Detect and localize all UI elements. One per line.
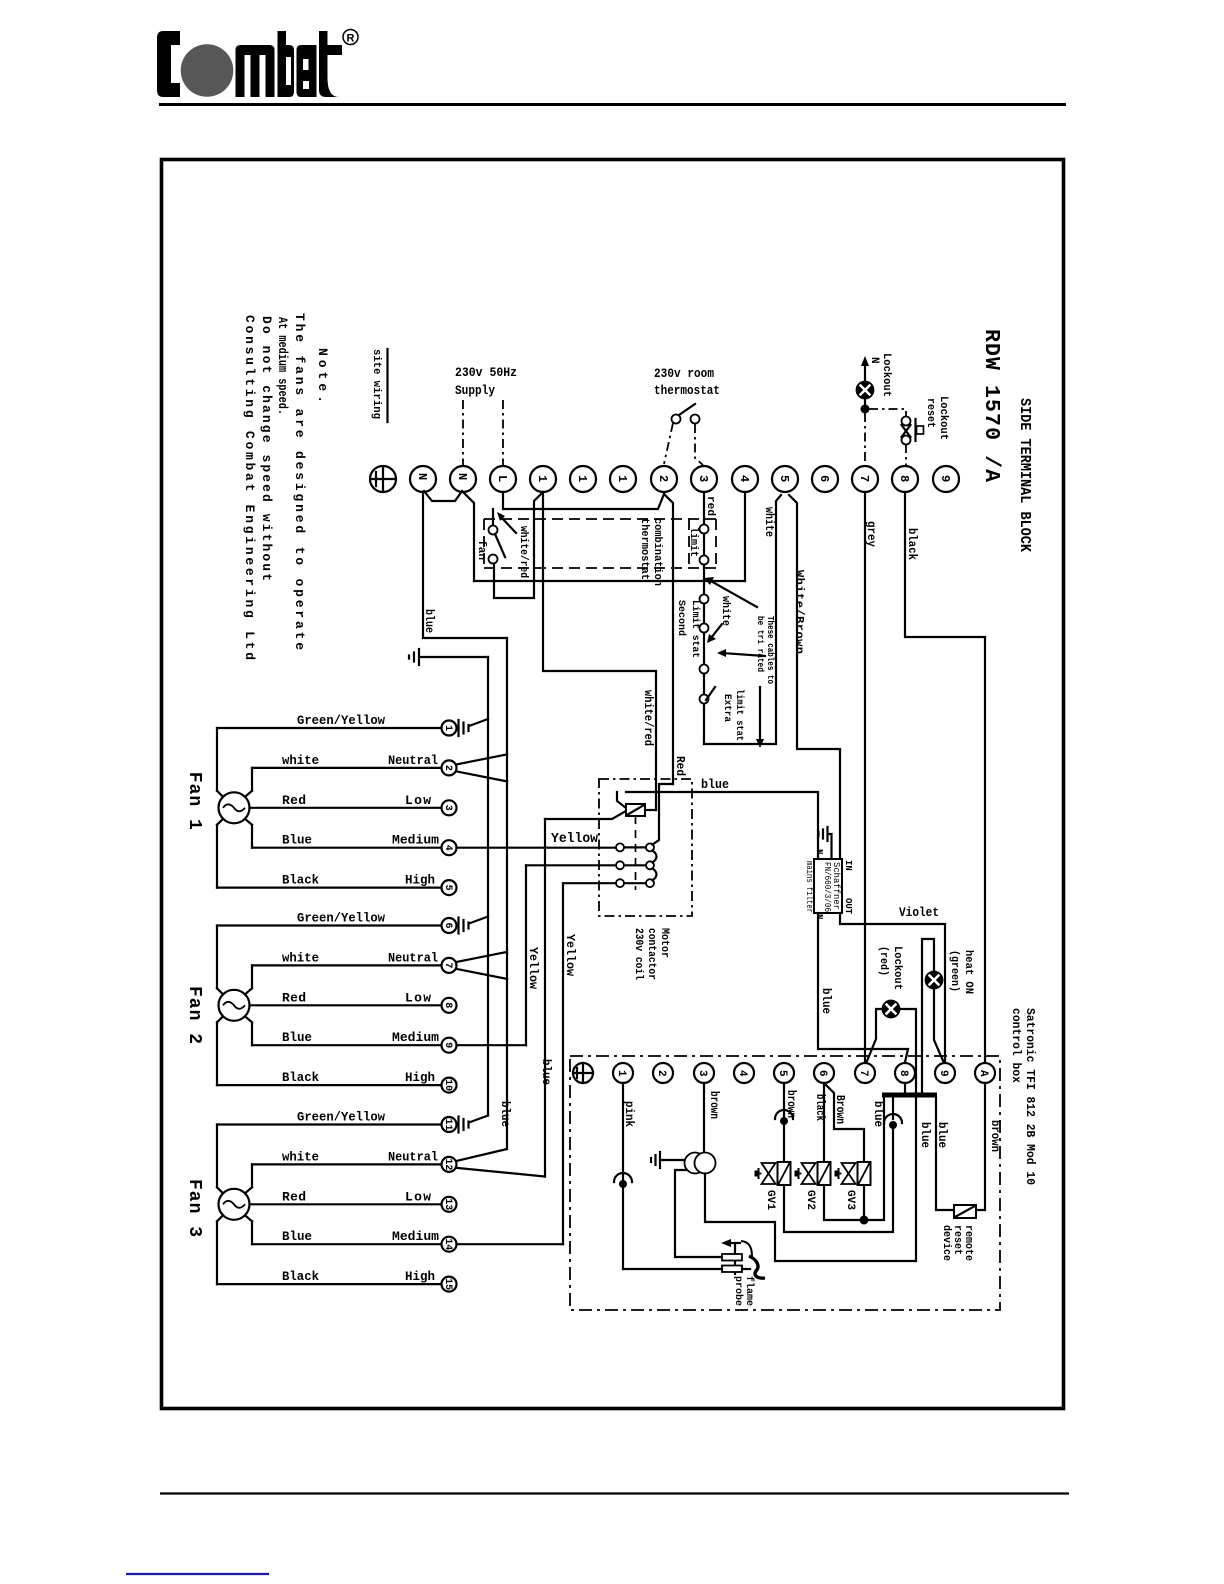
box terminal earth [573,1063,593,1083]
wire blue bus corner into coil [545,811,626,819]
LOGO [157,30,358,98]
svg-text:N: N [415,473,429,480]
terminal 5 [772,466,798,492]
contactor coil stub from blue [617,792,626,808]
svg-text:Lockout: Lockout [937,396,949,440]
wire spark generator earth stem [660,1159,685,1161]
svg-text:Red: Red [673,756,687,776]
wire horizontal stat line y581 [474,580,745,582]
room thermostat switch blade [679,404,695,415]
svg-text:Medium: Medium [392,1229,439,1244]
svg-text:These cables to: These cables to [765,616,775,684]
wire N2 down to stat line [463,492,474,581]
fan motor M2 [219,990,250,1021]
wire lockout red lamp left [867,1009,883,1061]
svg-text:be tri rated: be tri rated [755,616,765,672]
neutral bus thick bar [882,1093,937,1098]
svg-text:230v coil: 230v coil [632,928,644,980]
wire GV2 bottom rail [824,1097,884,1220]
svg-text:2: 2 [655,1070,667,1077]
lockout reset switch contacts [902,417,911,426]
wire N1-N2 link [424,491,462,501]
wire lower bar to pink [623,1268,722,1270]
svg-text:RDW 1570 /A: RDW 1570 /A [979,329,1003,482]
svg-text:High: High [405,873,435,888]
gas valve GV2 [795,1162,831,1210]
wire heat ON lamp to terminal 9 [934,989,944,1064]
svg-text:R: R [347,33,355,45]
terminal 8 (fan block) [442,998,457,1013]
earth symbol at spark generator [659,1152,661,1168]
supply dash-dot lead to N [462,400,464,465]
svg-text:pink: pink [622,1101,636,1127]
flame probe upper bar [722,1254,742,1261]
wire fan 2 green/yellow [217,924,442,926]
svg-text:device: device [940,1225,952,1261]
box terminal 1 [613,1063,633,1083]
Combat logo letter m [236,45,275,97]
terminal 3 [691,466,717,492]
svg-text:site wiring: site wiring [370,349,382,419]
arrow to extra limit stat [722,653,765,656]
flame probe lower bar [722,1266,742,1273]
wire terminal 5 white/brown drop [789,495,840,859]
svg-text:white: white [762,507,776,537]
wire earth tap fan 3 [469,1116,488,1123]
svg-text:blue: blue [918,1122,932,1148]
connector on GV1 return [884,1114,902,1123]
wire fan 3 green/yellow riser [216,1125,218,1188]
wire lower bar right stub [742,1268,750,1270]
svg-text:white: white [282,1149,319,1164]
terminal 9 (fan block) [442,1038,457,1053]
wire yellow bus fan3 [562,883,564,1244]
remote reset device [954,1205,976,1218]
lockout lamp (red) [883,1001,900,1018]
Satronic control box dashed outline [570,1056,1000,1310]
terminal 6 [812,466,838,492]
box terminal 6 [814,1063,834,1083]
svg-text:7: 7 [857,475,871,482]
svg-text:7: 7 [857,1070,869,1077]
svg-text:black: black [905,528,919,560]
svg-text:13: 13 [442,1198,453,1210]
terminal 3 (fan block) [442,800,457,815]
lockout reset switch blade cross [902,425,911,437]
svg-text:Green/Yellow: Green/Yellow [297,713,385,728]
wire fan 3 red/low [250,1203,442,1205]
svg-text:FN/660/3/06: FN/660/3/06 [822,862,832,912]
lockout N arrow [864,364,866,381]
svg-text:Yellow: Yellow [551,831,599,847]
box terminal 2 [653,1063,673,1083]
svg-text:blue: blue [701,777,729,792]
svg-text:Neutral: Neutral [388,753,438,768]
svg-text:N: N [868,357,880,364]
svg-text:4: 4 [737,475,751,482]
svg-text:7: 7 [442,962,453,968]
svg-text:10: 10 [442,1079,453,1091]
terminal 1c [610,466,636,492]
junction dot GV3 rail [860,1216,869,1225]
svg-text:limit stat: limit stat [733,689,745,741]
terminal L [490,466,516,492]
svg-text:Black: Black [282,1070,319,1085]
dash-dot lead thermostat to terminal 2 [664,423,673,464]
wire blue coil to filter [626,792,818,857]
junction dot under lamp [864,398,866,408]
svg-text:Do not change speed without: Do not change speed without [259,316,274,581]
wire blue neutral bus vertical [506,638,508,1149]
wire neutral taps fan 3 [457,1149,508,1161]
terminal 5 (fan block) [442,880,457,895]
svg-text:8: 8 [897,475,911,482]
wire GV1 bottom [784,1129,893,1232]
svg-text:Red: Red [282,793,306,808]
svg-text:11: 11 [442,1119,453,1131]
terminal 4 [732,466,758,492]
wire fan 1 white/neutral [252,767,442,769]
svg-text:IN: IN [843,860,853,871]
svg-text:brown: brown [707,1091,721,1119]
svg-text:Lockout: Lockout [891,946,903,990]
wire fan 3 white riser [251,1164,253,1187]
svg-text:Low: Low [405,1189,431,1204]
svg-text:5: 5 [442,885,453,891]
terminal 2 (fan block) [442,760,457,775]
wire fan 3 black/high [217,1283,442,1285]
svg-text:Neutral: Neutral [388,1149,438,1164]
svg-text:reset: reset [924,398,936,428]
flame probe arrow [721,1239,731,1247]
svg-text:white: white [719,596,731,626]
wire fan 2 blue riser [251,1022,253,1045]
terminal N (top row, first) [410,466,436,492]
wire filter earth stem [828,834,832,857]
svg-text:blue: blue [498,1101,512,1127]
fan 2 motor stubs [217,988,223,994]
terminal 12 (fan block) [442,1157,457,1172]
svg-text:Blue: Blue [282,1030,312,1045]
fan 1 motor stubs [217,791,223,797]
terminal N (top row, second) [450,466,476,492]
extra limit stat contacts [700,665,709,674]
svg-text:red: red [704,496,716,516]
wire earth tap fan 1 [469,719,488,726]
svg-text:2: 2 [656,475,670,482]
fan switch contacts [489,526,498,535]
svg-text:4: 4 [736,1070,748,1077]
box terminal 7 [855,1063,875,1083]
site wiring divider line [386,349,388,422]
terminal 14 (fan block) [442,1237,457,1252]
wire terminal 1a diagonal to fan switch return [494,492,543,598]
svg-text:mains filter: mains filter [804,861,814,913]
svg-text:Fan 2: Fan 2 [184,986,204,1044]
terminal 1 (fan block) [442,721,457,736]
svg-text:OUT: OUT [843,898,853,915]
wire fan 1 green/yellow [217,727,442,729]
svg-text:Second: Second [675,600,687,636]
contactor linkage dashed [635,816,637,890]
svg-text:N: N [814,849,824,854]
svg-text:5: 5 [777,475,791,482]
svg-text:Extra: Extra [721,694,732,722]
registered trademark symbol [343,30,358,45]
wire red feed to pole 1 [653,784,674,845]
wire 6 to GV3 brown [826,1085,864,1162]
svg-text:1: 1 [615,475,629,482]
wire connector to bus bar [892,1097,894,1119]
wire terminal 1a white/red drop [543,492,656,810]
svg-text:combination: combination [651,518,663,586]
motor contactor dash-dot box [599,779,692,916]
wire fan 2 blue/medium [252,1044,442,1046]
second limit stat blade arrow [711,624,722,638]
lockout reset pushbutton [914,419,916,441]
svg-text:3: 3 [696,475,710,482]
wire terminal 8 to bus bar [904,1083,906,1092]
Combat logo letter b [278,31,295,97]
supply dash-dot lead to L [502,400,504,465]
wire blue neutral feed from N1 [423,492,507,638]
svg-text:White/Brown: White/Brown [792,570,806,654]
svg-text:1: 1 [575,475,589,482]
dash-dot reset to terminal 8 [905,444,907,465]
earth symbol fan 1 [457,720,459,736]
wire fan 1 medium to contactor [457,847,617,849]
box terminal 5 [774,1063,794,1083]
wire L down to fan switch line [503,492,664,509]
svg-text:white: white [282,950,319,965]
terminal 2 [651,466,677,492]
wire spark generator right to bus [705,1174,916,1262]
svg-text:probe: probe [732,1276,744,1306]
spark generator [685,1153,706,1174]
svg-text:limit: limit [687,527,699,557]
svg-text:1: 1 [535,475,549,482]
terminal 10 (fan block) [442,1078,457,1093]
wire bar to remote reset device [936,1098,954,1211]
wire fan 3 blue riser [251,1221,253,1244]
wire terminal 3 to spark generator [703,1083,705,1153]
svg-text:GV1: GV1 [764,1190,776,1210]
svg-text:blue: blue [819,988,833,1014]
dash-dot lamp to terminal 7 [864,413,866,465]
wire neutral taps fan 1 [457,754,508,764]
svg-text:Fan 3: Fan 3 [184,1179,204,1237]
terminal 1b [570,466,596,492]
Combat logo letter C [157,31,180,97]
svg-text:Yellow: Yellow [526,947,540,990]
svg-text:Black: Black [282,1269,319,1284]
svg-text:Low: Low [405,990,431,1005]
wire earth bus vertical [487,657,489,1116]
svg-text:blue: blue [871,1101,885,1127]
svg-text:heat ON: heat ON [962,950,974,994]
wire device to terminal A [976,1083,985,1210]
svg-text:1: 1 [615,1070,627,1077]
box terminal 4 [734,1063,754,1083]
svg-text:Motor: Motor [658,928,670,958]
svg-text:Supply: Supply [455,383,495,398]
contactor pole 1 bar [617,846,651,848]
contactor pole 2 bar [526,864,650,866]
svg-text:Blue: Blue [282,1229,312,1244]
contactor coil [626,804,645,816]
wire fan 1 black/high [217,886,442,888]
svg-text:Limit stat: Limit stat [689,600,701,658]
wire blue from filter bottom [818,913,908,1062]
wire fan 1 white riser [251,768,253,791]
svg-text:Red: Red [282,990,306,1005]
earth symbol at filter [826,827,828,841]
svg-text:1: 1 [442,725,453,731]
flame probe stem [734,1243,736,1274]
svg-text:Medium: Medium [392,833,439,848]
drawing frame border [162,160,1064,1409]
svg-text:230v room: 230v room [654,366,714,381]
svg-text:thermostat: thermostat [654,383,720,398]
terminal 6 (fan block) [442,918,457,933]
svg-text:5: 5 [776,1070,788,1077]
box terminal A [975,1063,995,1083]
fan 3 motor stubs [217,1187,223,1193]
svg-text:GV3: GV3 [844,1190,856,1210]
contactor pole 1 contacts [616,843,624,851]
svg-text:white: white [282,753,319,768]
lockout lamp (top) [857,382,874,399]
terminal 4 (fan block) [442,840,457,855]
wire fan 1 green/yellow riser [216,728,218,791]
svg-text:Green/Yellow: Green/Yellow [297,1110,385,1125]
svg-text:(red): (red) [877,946,889,976]
svg-text:9: 9 [442,1042,453,1048]
svg-text:Black: Black [282,873,319,888]
heat ON lamp (green) [926,972,943,989]
svg-text:Lockout: Lockout [880,353,892,397]
fan switch blade [495,534,505,557]
wire fan 2 black riser [216,1022,218,1085]
wire fan 2 medium to yellow bus [457,1044,527,1046]
wire 5 to GV1 [783,1083,785,1162]
svg-text:Neutral: Neutral [388,950,438,965]
wire fan 2 green/yellow riser [216,926,218,989]
wire 6 to GV2 black [823,1083,825,1162]
contactor right jumpers [653,851,657,863]
wire spark generator to flame probe [675,1170,722,1257]
wire blue bus to fan3 neutral [544,819,546,1177]
svg-text:grey: grey [864,521,878,547]
wire neutral taps fan 2 [457,952,508,962]
svg-text:8: 8 [442,1002,453,1008]
svg-text:Medium: Medium [392,1030,439,1045]
svg-text:GV2: GV2 [804,1190,816,1210]
terminal earth (top row) [370,466,396,492]
white arrow to stat junction [709,580,757,607]
svg-text:(green): (green) [948,950,960,992]
logo underline rule [159,103,1066,106]
wire fan 3 green/yellow [217,1123,442,1125]
wire terminal 3 limit stat column [703,492,705,744]
svg-text:L: L [495,475,509,482]
wire fan 1 blue/medium [252,847,442,849]
wire terminal 2 down to Red drop [664,494,673,784]
svg-text:fan: fan [475,540,487,560]
wire fan 3 medium to yellow bus [457,1243,564,1245]
wire terminal 5 white drop [704,495,781,744]
white/red arrow at fan switch [502,518,516,533]
contactor pole 3 bar [563,882,650,884]
svg-text:Red: Red [282,1189,306,1204]
svg-text:contactor: contactor [645,928,657,980]
svg-text:black: black [813,1094,827,1121]
wire fan 1 red/low [250,807,442,809]
terminal 11 (fan block) [442,1117,457,1132]
svg-text:control box: control box [1009,1008,1023,1083]
terminal 13 (fan block) [442,1197,457,1212]
wire GV3 bottom [863,1185,865,1220]
svg-text:Yellow: Yellow [563,934,577,977]
svg-text:Low: Low [405,793,431,808]
fan motor M3 [219,1189,250,1220]
svg-text:9: 9 [938,475,952,482]
svg-text:thermostat: thermostat [638,518,650,580]
svg-text:230v 50Hz: 230v 50Hz [455,365,517,380]
svg-text:12: 12 [442,1158,453,1170]
fan switch upper contact lead [492,509,494,525]
wire coil to white/red [645,809,656,811]
terminal 1a [530,466,556,492]
earth ground symbol top left [418,649,420,665]
svg-text:Brown: Brown [833,1095,847,1124]
box terminal 8 [895,1063,915,1083]
wire fan 3 white/neutral [252,1163,442,1165]
contactor pole 3 contacts [616,879,624,887]
limit stat contacts [700,525,709,534]
extra limit stat blade [706,687,715,700]
wire fan 2 white/neutral [252,964,442,966]
wire fan 1 black riser [216,825,218,888]
wire fan 3 blue/medium [252,1243,442,1245]
terminal 7 [852,466,878,492]
svg-text:9: 9 [937,1070,949,1077]
svg-text:brown: brown [988,1120,1002,1152]
blue footer underline [126,1573,269,1575]
down arrow from tri rated note [759,687,761,741]
wire pink from box terminal 1 [622,1083,624,1269]
svg-text:A: A [977,1070,989,1077]
wire lockout red lamp right to bus [900,1009,917,1261]
flame probe curved tip [741,1241,752,1257]
svg-text:blue: blue [422,609,436,633]
svg-text:High: High [405,1269,435,1284]
terminal 7 (fan block) [442,958,457,973]
room thermostat switch contacts [672,415,681,424]
svg-text:6: 6 [442,923,453,929]
svg-text:Satronic TFI 812 2B Mod 10: Satronic TFI 812 2B Mod 10 [1023,1008,1037,1185]
terminal 8 [892,466,918,492]
box terminal 9 [935,1063,955,1083]
svg-text:blue: blue [539,1059,553,1085]
svg-text:14: 14 [442,1238,453,1250]
box terminal 3 [694,1063,714,1083]
terminal 9 [933,466,959,492]
svg-text:3: 3 [442,805,453,811]
svg-text:Violet: Violet [899,905,939,920]
svg-text:white/red: white/red [517,526,529,578]
wire fan 2 white riser [251,965,253,988]
